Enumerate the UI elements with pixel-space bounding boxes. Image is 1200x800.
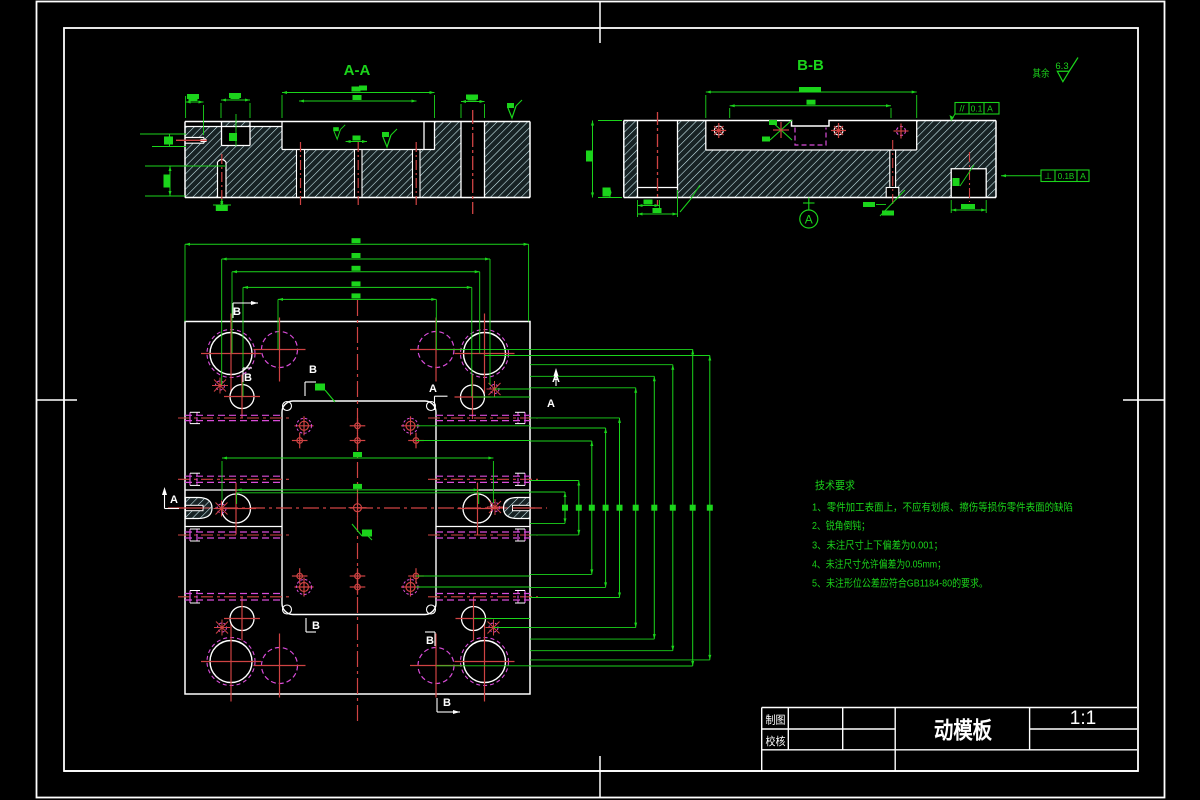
GD&T perpendicularity frame 0.1B A [1001, 170, 1089, 182]
technical requirements text [812, 479, 1073, 590]
surface finish mark on A-A top right [507, 100, 522, 118]
svg-text:A: A [1080, 171, 1086, 181]
svg-text:A: A [170, 494, 178, 506]
svg-text:制图: 制图 [766, 714, 786, 727]
plan view plate outline [185, 322, 530, 695]
GD&T parallelism frame // 0.1 A [950, 103, 1000, 121]
svg-text:A-A: A-A [344, 62, 371, 79]
section A cut marks [162, 368, 560, 509]
title block text 制图 [766, 714, 786, 727]
svg-text:校核: 校核 [766, 734, 786, 748]
svg-text:4、未注尺寸允许偏差为0.05mm；: 4、未注尺寸允许偏差为0.05mm； [812, 558, 946, 571]
pocket interior screw holes [292, 416, 424, 596]
svg-text:技术要求: 技术要求 [815, 479, 855, 492]
magenta dashed circles [254, 318, 463, 698]
svg-text:B: B [426, 635, 434, 647]
svg-text:B-B: B-B [797, 57, 824, 74]
middle white circles [216, 483, 498, 535]
title block part name 动模板 [934, 717, 993, 743]
svg-text:B: B [443, 697, 451, 709]
svg-text:A: A [987, 104, 993, 114]
surface finish mark in A-A pocket [382, 129, 397, 147]
section B-B hatched body [624, 121, 996, 198]
section label A-A [344, 62, 371, 79]
green leader marks at pocket corners [315, 384, 372, 541]
centering tick left [37, 399, 78, 401]
svg-text:2、锐角倒钝；: 2、锐角倒钝； [812, 519, 870, 532]
section B-B red centerlines [658, 112, 970, 205]
svg-text:B: B [312, 620, 320, 632]
svg-text:其余: 其余 [1033, 67, 1050, 80]
title block scale 1:1 [1070, 708, 1096, 729]
plan view right dimension stack [236, 349, 713, 666]
section B-B white outline [624, 121, 996, 198]
centering tick bottom [599, 756, 601, 798]
surface finish note 其余 6.3 top right [1033, 58, 1079, 82]
svg-text:B: B [233, 306, 241, 318]
plan view middle band lines [185, 490, 530, 527]
title block grid [64, 708, 1138, 772]
svg-text:5、未注形位公差应符合GB1184-80的要求。: 5、未注形位公差应符合GB1184-80的要求。 [812, 577, 988, 590]
plan view top dimension stack [185, 238, 529, 396]
svg-text:A: A [805, 213, 813, 227]
svg-text:1、零件加工表面上，不应有划痕、擦伤等损伤零件表面的缺陷: 1、零件加工表面上，不应有划痕、擦伤等损伤零件表面的缺陷 [812, 501, 1073, 514]
plan view horizontal centerline [168, 507, 547, 509]
section A-A red centerlines [176, 110, 473, 214]
svg-text:⊥: ⊥ [1044, 171, 1052, 181]
svg-text:A: A [429, 383, 437, 395]
centering tick top [599, 2, 601, 44]
svg-text:3、未注尺寸上下偏差为0.001；: 3、未注尺寸上下偏差为0.001； [812, 539, 943, 552]
plan view vertical centerline [357, 300, 359, 722]
svg-text:0.1: 0.1 [971, 104, 983, 114]
svg-text:动模板: 动模板 [934, 717, 993, 743]
return pin holes small white circles [224, 375, 492, 641]
section B-B green dimensions [586, 87, 986, 217]
plan view center pocket outline [282, 401, 436, 615]
svg-text:6.3: 6.3 [1055, 61, 1068, 72]
centering tick right [1123, 399, 1165, 401]
surface finish mark small in A-A pocket [333, 125, 345, 139]
side slots hatched [177, 498, 539, 519]
section B-B insert band features [711, 120, 908, 145]
datum A symbol below B-B [800, 198, 818, 229]
svg-text:B: B [244, 372, 252, 384]
section A-A hatched body [185, 122, 530, 198]
svg-text:A: A [547, 398, 555, 410]
svg-text:1:1: 1:1 [1070, 708, 1096, 729]
plan view inner horizontal dims [222, 452, 493, 504]
cooling channels magenta dashed [178, 412, 538, 603]
svg-text://: // [959, 104, 965, 114]
svg-text:0.1B: 0.1B [1058, 172, 1074, 181]
section label B-B [797, 57, 824, 74]
section B cut marks [233, 301, 460, 714]
section A-A green dimensions [140, 86, 485, 212]
title block text 校核 [766, 734, 786, 748]
section A-A white outline [185, 122, 530, 198]
guide pin holes big white circles [201, 314, 515, 702]
magenta X hole symbols [212, 378, 503, 636]
svg-text:B: B [309, 364, 317, 376]
